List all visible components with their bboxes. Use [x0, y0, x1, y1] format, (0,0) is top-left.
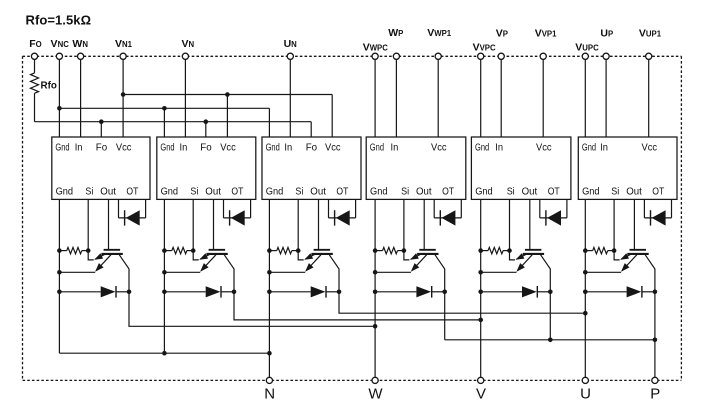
transistor U3 IGBT sense emitter: [305, 254, 316, 260]
transistor U3 IGBT collector lead: [329, 255, 339, 292]
junction U1 FWD-collector: [127, 290, 132, 295]
wire U2 sense emitter stub: [193, 251, 199, 260]
svg-text:Gnd: Gnd: [582, 186, 600, 198]
svg-text:In: In: [495, 142, 503, 154]
svg-text:VN: VN: [181, 38, 194, 50]
wire U6 Si pin vertical: [613, 199, 615, 250]
wire U3 OT diode link: [329, 217, 356, 219]
wire U6 OT return stub: [671, 199, 673, 218]
terminal VN1: [120, 53, 126, 59]
wire U1 FWD anode: [59, 291, 100, 293]
wire UP to U6 In: [605, 59, 607, 137]
wire U2 FWD cathode: [221, 291, 234, 293]
wire U5 sense emitter stub: [510, 251, 516, 260]
junction U3 FWD-gnd: [267, 290, 272, 295]
terminal V: [478, 377, 484, 383]
transistor U1 IGBT collector lead: [119, 255, 129, 292]
wire UN input to U3 In: [289, 59, 291, 137]
wire U2 Out pin to gate: [213, 199, 215, 249]
junction U1 shunt-Si: [86, 248, 91, 253]
wire U4 Gnd-emitter vertical: [374, 199, 376, 377]
junction U1 emitter-gnd: [57, 270, 62, 275]
terminal W: [372, 377, 378, 383]
wire U2 emitter to gnd line: [164, 271, 200, 273]
wire U3 Out pin to gate: [318, 199, 320, 249]
svg-text:In: In: [600, 142, 608, 154]
svg-text:WP: WP: [388, 27, 403, 39]
terminal UN: [287, 53, 293, 59]
module outline (dashed): [23, 56, 682, 380]
junction U3 FWD-collector: [337, 290, 342, 295]
wire U3 OT pin stub: [328, 199, 330, 218]
wire U3 OT return stub: [355, 199, 357, 218]
diode U1 free-wheel (points right): [101, 286, 116, 297]
junction U4 FWD-collector: [442, 290, 447, 295]
wire U4 Out pin to gate: [423, 199, 425, 249]
transistor U5 IGBT main emitter: [518, 255, 533, 271]
diode U3 free-wheel (points right): [311, 286, 326, 297]
terminal VVP1: [540, 53, 546, 59]
driver block U4: [366, 137, 466, 199]
junction U1 collector-W: [373, 324, 378, 329]
diode U5 OT (points left): [545, 210, 547, 225]
transistor U6 IGBT gate bar: [630, 249, 647, 251]
transistor U5 IGBT gate bar: [525, 249, 542, 251]
diode U2 OT (points left): [229, 210, 231, 225]
svg-text:Gnd: Gnd: [160, 142, 174, 154]
wire U2 collector to phase V: [234, 292, 481, 320]
wire U2 FWD anode: [164, 291, 205, 293]
svg-text:Vcc: Vcc: [325, 142, 341, 154]
wire Fo drop to U2: [205, 122, 207, 137]
wire U2 Si pin vertical: [192, 199, 194, 250]
wire Fo net vertical: [34, 93, 36, 121]
transistor U4 IGBT body bar: [417, 253, 438, 255]
transistor U4 IGBT sense emitter: [411, 254, 422, 260]
svg-text:FO: FO: [29, 38, 42, 50]
junction U4 shunt-Si: [402, 248, 407, 253]
junction U5 shunt-gnd: [478, 248, 483, 253]
svg-text:Fo: Fo: [96, 142, 108, 154]
wire U1 FWD cathode: [116, 291, 129, 293]
transistor U2 IGBT collector lead: [224, 255, 234, 292]
svg-text:Si: Si: [85, 186, 93, 198]
wire U6 OT diode link: [644, 217, 671, 219]
wire U4 collector to P bus: [444, 292, 446, 340]
junction U4 emitter-gnd: [373, 270, 378, 275]
transistor U1 IGBT body bar: [101, 253, 122, 255]
junction U2 FWD-gnd: [162, 290, 167, 295]
transistor U2 IGBT sense emitter: [200, 254, 211, 260]
wire U3 sense emitter stub: [298, 251, 304, 260]
svg-text:VP: VP: [496, 28, 508, 40]
transistor U2 IGBT gate bar: [209, 249, 226, 251]
wire VUPC to U6 Gnd: [584, 59, 586, 137]
svg-text:Si: Si: [295, 186, 303, 198]
driver block U5: [471, 137, 571, 199]
junction N bus-U2 emitter: [162, 351, 167, 356]
svg-text:Si: Si: [190, 186, 198, 198]
junction U2 collector-V: [478, 318, 483, 323]
svg-text:Rfo=1.5kΩ: Rfo=1.5kΩ: [26, 13, 92, 28]
svg-text:Out: Out: [100, 186, 116, 198]
svg-text:U: U: [580, 386, 591, 403]
svg-text:OT: OT: [231, 186, 243, 198]
wire U1 sense emitter stub: [88, 251, 94, 260]
wire WP to U4 In: [395, 59, 397, 137]
junction U2 shunt-Si: [191, 248, 196, 253]
svg-text:Gnd: Gnd: [582, 142, 596, 154]
terminal VN: [182, 53, 188, 59]
wire Fo terminal lead: [34, 59, 36, 73]
svg-text:OT: OT: [548, 186, 560, 198]
terminal VVPC: [478, 53, 484, 59]
wire U5 Gnd-emitter vertical: [480, 199, 482, 377]
junction U6 shunt-Si: [612, 248, 617, 253]
wire WN input to U1 In: [80, 59, 82, 137]
wire U5 OT diode link: [540, 217, 567, 219]
junction U3 shunt-Si: [296, 248, 301, 253]
svg-text:Gnd: Gnd: [161, 186, 179, 198]
wire U5 OT pin stub: [539, 199, 541, 218]
svg-text:Vcc: Vcc: [536, 142, 552, 154]
wire Fo drop to U3: [310, 122, 312, 137]
wire U4 sense emitter stub: [404, 251, 410, 260]
wire U3 Si pin vertical: [297, 199, 299, 250]
junction U3 emitter-gnd: [267, 270, 272, 275]
wire VP to U5 In: [500, 59, 502, 137]
wire U6 sense emitter stub: [614, 251, 620, 260]
wire U1 Gnd-emitter vertical: [58, 199, 60, 353]
junction U6 emitter-gnd: [583, 270, 588, 275]
wire U2 OT return stub: [250, 199, 252, 218]
svg-text:In: In: [75, 142, 83, 154]
driver block U3: [262, 137, 361, 199]
wire U6 FWD anode: [585, 291, 626, 293]
wire U1 OT diode link: [119, 217, 146, 219]
wire VN1 vertical to U1 Vcc: [122, 59, 124, 137]
wire U6 collector to P bus: [654, 292, 656, 340]
junction U1 shunt-gnd: [57, 248, 62, 253]
transistor U1 IGBT sense emitter: [95, 254, 106, 260]
transistor U6 IGBT body bar: [627, 253, 648, 255]
junction U5 FWD-collector: [548, 290, 553, 295]
wire VNC drop to U2 Gnd: [163, 108, 165, 137]
wire Fo distribution row: [35, 121, 312, 123]
svg-text:Vcc: Vcc: [220, 142, 236, 154]
wire U3 collector to phase U: [339, 292, 585, 313]
wire U5 collector to P bus: [549, 292, 551, 340]
svg-text:Gnd: Gnd: [370, 186, 388, 198]
diode U3 OT (points left): [334, 210, 336, 225]
svg-text:VN1: VN1: [115, 38, 133, 50]
terminal VUPC: [582, 53, 588, 59]
wire U5 OT return stub: [566, 199, 568, 218]
svg-text:OT: OT: [336, 186, 348, 198]
wire U4 Si pin vertical: [403, 199, 405, 250]
transistor U5 IGBT body bar: [523, 253, 544, 255]
junction U4 shunt-gnd: [373, 248, 378, 253]
resistor Rfo: [31, 73, 39, 93]
junction VN1-U2: [225, 92, 230, 97]
wire U1 Out pin to gate: [108, 199, 110, 249]
wire U5 FWD cathode: [537, 291, 550, 293]
wire Fo drop to U1: [100, 122, 102, 137]
terminal N: [266, 377, 272, 383]
svg-text:WN: WN: [72, 38, 88, 50]
wire VN1 drop to U2 Vcc: [226, 95, 228, 138]
wire U6 emitter to gnd line: [585, 271, 621, 273]
svg-text:Gnd: Gnd: [370, 142, 384, 154]
junction VNC-U2: [162, 106, 167, 111]
resistor U3 sense shunt: [269, 250, 276, 252]
junction Fo-U1: [99, 119, 104, 124]
wire P bus: [445, 339, 655, 341]
resistor U1 sense shunt: [59, 250, 66, 252]
svg-text:UN: UN: [284, 38, 298, 50]
wire U2 Gnd-emitter vertical: [163, 199, 165, 353]
svg-text:W: W: [368, 386, 383, 403]
wire VN1 distribution row: [123, 94, 332, 96]
terminal WN: [78, 53, 84, 59]
terminal WP: [393, 53, 399, 59]
wire U2 OT pin stub: [223, 199, 225, 218]
terminal U: [582, 377, 588, 383]
junction U6 shunt-gnd: [583, 248, 588, 253]
junction U2 emitter-gnd: [162, 270, 167, 275]
wire U1 OT return stub: [145, 199, 147, 218]
transistor U6 IGBT collector lead: [645, 255, 655, 292]
wire U3 Gnd-emitter vertical: [268, 199, 270, 353]
junction VN1 row start: [121, 92, 126, 97]
wire VWPC to U4 Gnd: [374, 59, 376, 137]
junction P bus-U5 collector: [548, 338, 553, 343]
svg-text:VWP1: VWP1: [427, 27, 452, 39]
wire U4 OT pin stub: [433, 199, 435, 218]
junction U5 emitter-gnd: [478, 270, 483, 275]
svg-text:Out: Out: [310, 186, 326, 198]
wire VN1 drop to U3 Vcc: [331, 95, 333, 138]
svg-text:Fo: Fo: [306, 142, 318, 154]
svg-text:Fo: Fo: [200, 142, 212, 154]
transistor U2 IGBT main emitter: [201, 255, 216, 271]
terminal P: [652, 377, 658, 383]
diode U6 free-wheel (points right): [627, 286, 642, 297]
svg-text:Gnd: Gnd: [475, 142, 489, 154]
wire U3 FWD cathode: [326, 291, 339, 293]
svg-text:Gnd: Gnd: [55, 142, 69, 154]
svg-text:Out: Out: [626, 186, 642, 198]
svg-text:Vcc: Vcc: [116, 142, 132, 154]
svg-text:OT: OT: [442, 186, 454, 198]
svg-text:Gnd: Gnd: [475, 186, 493, 198]
svg-text:VUPC: VUPC: [575, 42, 599, 54]
wire VVPC to U5 Gnd: [480, 59, 482, 137]
driver block U6: [578, 137, 677, 199]
svg-text:Si: Si: [401, 186, 409, 198]
wire U4 FWD cathode: [432, 291, 445, 293]
terminal Fo: [31, 53, 37, 59]
wire P terminal stem: [654, 340, 656, 378]
transistor U6 IGBT main emitter: [622, 255, 637, 271]
wire N terminal stem: [268, 353, 270, 377]
wire U4 OT diode link: [434, 217, 461, 219]
svg-text:VNC: VNC: [51, 38, 70, 50]
wire U4 emitter to gnd line: [375, 271, 411, 273]
wire VVP1 to U5 Vcc: [542, 59, 544, 137]
wire U5 emitter to gnd line: [481, 271, 517, 273]
transistor U2 IGBT body bar: [206, 253, 227, 255]
junction U6 FWD-collector: [653, 290, 658, 295]
svg-text:Si: Si: [507, 186, 515, 198]
wire U1 emitter to gnd line: [59, 271, 95, 273]
svg-text:Out: Out: [205, 186, 221, 198]
svg-text:P: P: [650, 386, 660, 403]
transistor U1 IGBT gate bar: [104, 249, 121, 251]
diode U6 OT (points left): [650, 210, 652, 225]
diode U4 OT (points left): [439, 210, 441, 225]
wire VNC distribution row: [59, 107, 269, 109]
svg-text:VVPC: VVPC: [473, 42, 496, 54]
terminal VWP1: [435, 53, 441, 59]
svg-text:V: V: [476, 386, 486, 403]
svg-text:In: In: [180, 142, 188, 154]
svg-text:N: N: [264, 386, 275, 403]
wire U5 FWD anode: [481, 291, 522, 293]
junction VNC row start: [57, 106, 62, 111]
terminal UP: [603, 53, 609, 59]
transistor U3 IGBT main emitter: [306, 255, 321, 271]
wire VN input to U2 In: [184, 59, 186, 137]
junction U1 FWD-gnd: [57, 290, 62, 295]
wire U4 FWD anode: [375, 291, 416, 293]
wire U1 Si pin vertical: [87, 199, 89, 250]
transistor U3 IGBT gate bar: [314, 249, 331, 251]
terminal VNC: [56, 53, 62, 59]
junction U6 FWD-gnd: [583, 290, 588, 295]
junction U2 FWD-collector: [232, 290, 237, 295]
junction U5 shunt-Si: [507, 248, 512, 253]
junction U4 FWD-gnd: [373, 290, 378, 295]
svg-text:Vcc: Vcc: [431, 142, 447, 154]
svg-text:Gnd: Gnd: [266, 186, 284, 198]
terminal VWPC: [372, 53, 378, 59]
diode U4 free-wheel (points right): [416, 286, 431, 297]
wire U6 Out pin to gate: [633, 199, 635, 249]
svg-text:Out: Out: [416, 186, 432, 198]
wire VWP1 to U4 Vcc: [437, 59, 439, 137]
svg-text:VWPC: VWPC: [363, 42, 389, 54]
transistor U4 IGBT main emitter: [412, 255, 427, 271]
junction N bus-U3 emitter / N stem: [267, 351, 272, 356]
svg-text:Gnd: Gnd: [266, 142, 280, 154]
junction U3 shunt-gnd: [267, 248, 272, 253]
wire U1 OT pin stub: [118, 199, 120, 218]
svg-text:OT: OT: [652, 186, 664, 198]
svg-text:Si: Si: [611, 186, 619, 198]
diode U2 free-wheel (points right): [206, 286, 221, 297]
driver block U2: [157, 137, 256, 199]
terminal VUP1: [646, 53, 652, 59]
transistor U6 IGBT sense emitter: [621, 254, 632, 260]
junction P bus-U6 collector / P stem: [653, 338, 658, 343]
wire N bus: [59, 352, 269, 354]
svg-text:Gnd: Gnd: [56, 186, 74, 198]
wire U6 Gnd-emitter vertical: [584, 199, 586, 377]
resistor U6 sense shunt: [585, 250, 592, 252]
junction Fo-U2: [204, 119, 209, 124]
transistor U3 IGBT body bar: [311, 253, 332, 255]
svg-text:OT: OT: [126, 186, 138, 198]
terminal VP: [498, 53, 504, 59]
wire U2 OT diode link: [224, 217, 251, 219]
junction U5 FWD-gnd: [478, 290, 483, 295]
svg-text:UP: UP: [600, 28, 613, 40]
wire U5 Out pin to gate: [529, 199, 531, 249]
svg-text:In: In: [391, 142, 399, 154]
transistor U5 IGBT sense emitter: [517, 254, 528, 260]
resistor U2 sense shunt: [164, 250, 171, 252]
driver block U1: [52, 137, 150, 199]
wire U6 FWD cathode: [642, 291, 655, 293]
svg-text:Vcc: Vcc: [642, 142, 658, 154]
diode U1 OT (points left): [124, 210, 126, 225]
svg-text:Rfo: Rfo: [41, 80, 57, 92]
resistor U5 sense shunt: [481, 250, 488, 252]
wire U5 Si pin vertical: [509, 199, 511, 250]
wire VNC vertical to U1 Gnd: [58, 59, 60, 137]
wire U3 FWD anode: [269, 291, 310, 293]
junction U2 shunt-gnd: [162, 248, 167, 253]
svg-text:VVP1: VVP1: [535, 28, 557, 40]
wire U3 emitter to gnd line: [269, 271, 305, 273]
transistor U4 IGBT gate bar: [419, 249, 436, 251]
wire U6 OT pin stub: [643, 199, 645, 218]
svg-text:In: In: [284, 142, 292, 154]
wire VNC drop to U3 Gnd: [268, 108, 270, 137]
transistor U4 IGBT collector lead: [435, 255, 445, 292]
wire U4 OT return stub: [460, 199, 462, 218]
svg-text:Out: Out: [522, 186, 538, 198]
transistor U5 IGBT collector lead: [541, 255, 551, 292]
wire VUP1 to U6 Vcc: [648, 59, 650, 137]
svg-text:VUP1: VUP1: [639, 28, 662, 40]
resistor U4 sense shunt: [375, 250, 382, 252]
diode U5 free-wheel (points right): [522, 286, 537, 297]
transistor U1 IGBT main emitter: [96, 255, 111, 271]
junction U3 collector-U: [583, 311, 588, 316]
wire U1 collector to phase W: [129, 292, 375, 327]
